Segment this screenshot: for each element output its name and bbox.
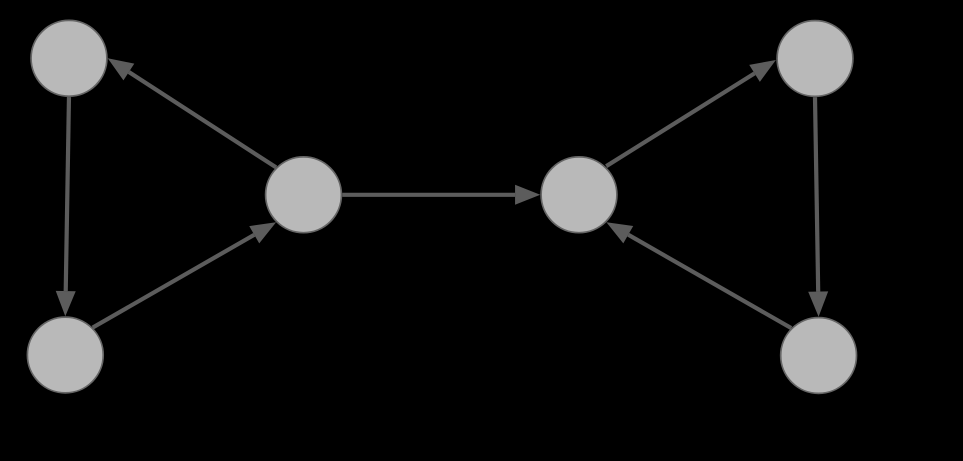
edge C->D: line — [342, 193, 515, 197]
node A (top-left) — [31, 20, 107, 96]
node E (top-right) — [777, 21, 853, 97]
node B (bottom-left) — [27, 317, 103, 393]
edge A->B: arrowhead — [56, 291, 76, 316]
edge F->D: arrowhead — [606, 222, 633, 243]
edge D->E: arrowhead — [749, 60, 776, 82]
node F (bottom-right) — [781, 318, 857, 394]
edge C->A: arrowhead — [108, 58, 135, 80]
edge B->C: line — [93, 235, 255, 328]
edge F->D: line — [628, 235, 791, 328]
node C (left hub) — [266, 157, 342, 233]
edge B->C: arrowhead — [249, 222, 276, 243]
edge E->F: arrowhead — [808, 291, 828, 316]
edge C->D: arrowhead — [515, 185, 540, 205]
edge A->B: line — [66, 97, 69, 291]
edge D->E: line — [606, 73, 754, 166]
node D (right hub) — [541, 157, 617, 233]
edge C->A: line — [129, 72, 276, 167]
edge E->F: line — [815, 97, 818, 291]
